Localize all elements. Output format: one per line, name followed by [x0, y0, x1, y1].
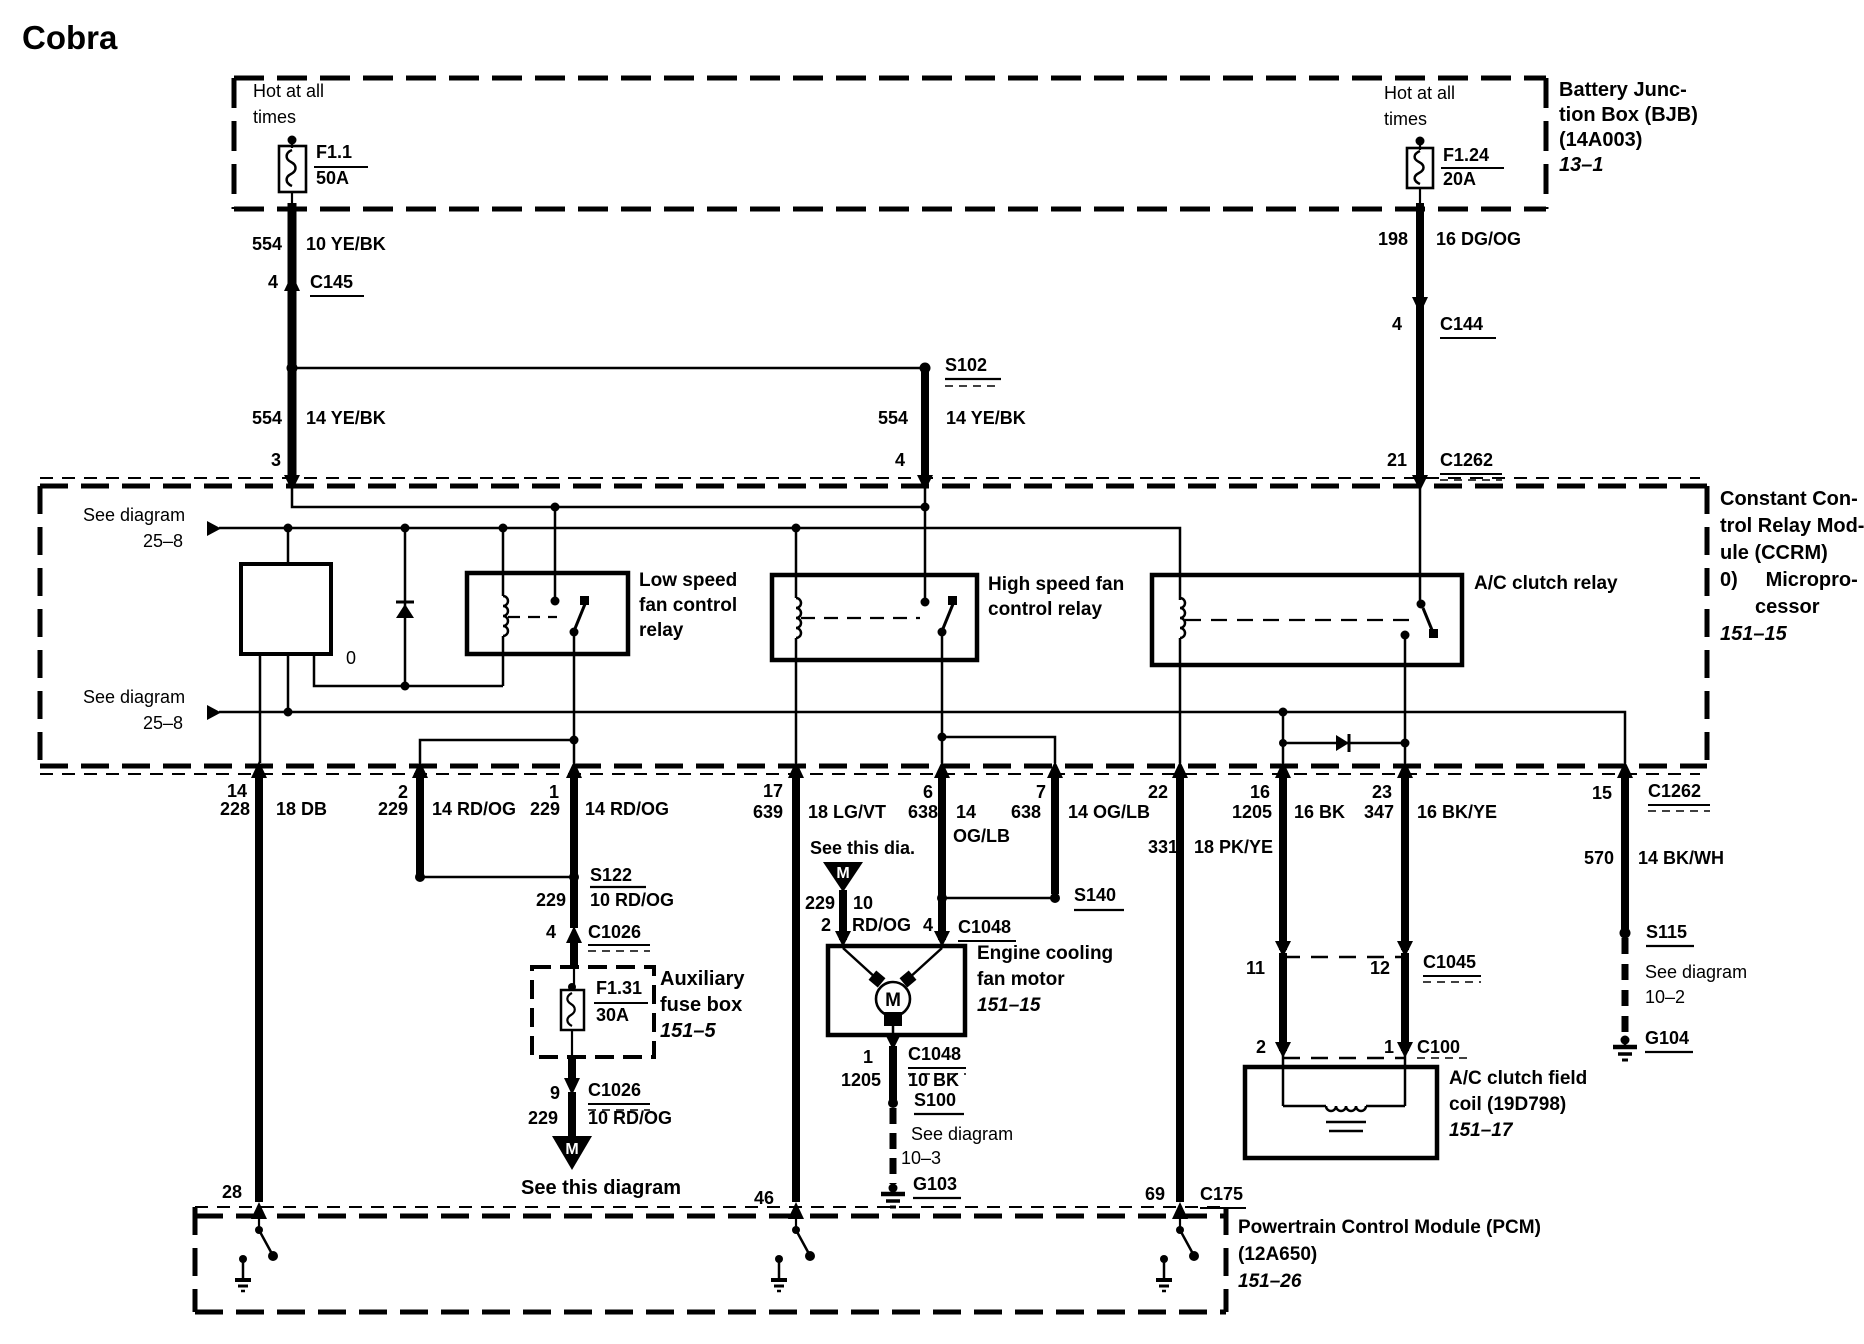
junction dot on 554 wire [287, 363, 298, 374]
wire 229 14 RD/OG pin 1 [570, 778, 578, 928]
connector C145 arrow [284, 274, 300, 291]
see this diagram label [521, 1178, 681, 1199]
title Cobra [22, 21, 117, 56]
splice S115 [1620, 928, 1631, 939]
wire 229 10 RD/OG to fan motor feed [568, 1092, 576, 1137]
ground inside PCM pin 28 [235, 1255, 251, 1291]
fuse F1.31 30A [561, 983, 648, 1056]
PCM pin 46 switch to ground [792, 1214, 815, 1261]
microprocessor bottom wires [260, 654, 503, 763]
splice S102 [920, 363, 931, 374]
CCRM pin 3 entry arrow [284, 475, 300, 491]
auxiliary fuse box labels [596, 979, 642, 998]
see diagram 10-2 label [1645, 963, 1747, 982]
pin 7 tap wire off high speed output [942, 737, 1055, 763]
diode between pin16 and pin23 wires [1283, 734, 1405, 752]
ground G103 [881, 1184, 961, 1208]
connector C144 arrow [1412, 297, 1428, 314]
connector C1026 pin 4 labels [546, 923, 556, 942]
A/C relay switch [1401, 487, 1439, 763]
microprocessor box (0) [241, 564, 331, 654]
see diagram 25-8 upper feed wire [219, 528, 1180, 600]
fuse F1.1 50A [279, 136, 368, 204]
pin 22 labels [1148, 783, 1168, 802]
CCRM pin 21 and C1262 labels [1387, 451, 1407, 470]
connector C100 dashed line and arrows [1275, 1042, 1469, 1058]
connector C1026 pin 9 arrow [564, 1078, 580, 1095]
wires between C1045 and C100 [1279, 953, 1287, 1051]
connector C1048 pin 1 labels [863, 1048, 873, 1067]
see this dia. label [810, 839, 915, 858]
dashed wire to ground G104 [1622, 938, 1629, 1036]
ground G104 label [1645, 1029, 1689, 1048]
CCRM name label [1720, 486, 1864, 648]
CCRM pin 21 entry arrow [1412, 475, 1428, 491]
connector C100 labels [1256, 1038, 1266, 1057]
pin 16 labels [1250, 783, 1270, 802]
microprocessor 0 label [346, 649, 356, 668]
pin 15 and C1262 labels [1592, 784, 1612, 803]
low speed relay armature link [508, 616, 557, 618]
flyback diode for low speed relay coil [396, 528, 414, 686]
junction dot diode/return wire [401, 682, 410, 691]
PCM dashed enclosure [195, 1207, 1226, 1312]
wire 554 10 YE/BK labels [252, 235, 282, 254]
ground inside PCM pin 69 [1156, 1255, 1172, 1291]
pin 1 labels [549, 783, 559, 802]
splice S100 label [914, 1091, 956, 1110]
see diagram 25-8 lower feed arrow [207, 705, 221, 720]
fuse F1.24 20A [1407, 137, 1504, 204]
ground G103 label [913, 1175, 957, 1194]
pin 2 labels [398, 783, 408, 802]
auxiliary fuse box dashed enclosure [532, 967, 654, 1057]
CCRM bottom connector exit arrows C1262 [251, 761, 1633, 778]
connector C1045 dashed line and arrows [1275, 941, 1481, 982]
pin 2 tap wire off low speed output [420, 740, 574, 763]
connector C1026 pin 9 labels [550, 1084, 560, 1103]
see diagram 25-8 upper label [83, 506, 185, 525]
PCM pin 28 switch to ground [255, 1214, 278, 1261]
wire 570 14 BK/WH pin 15 [1621, 778, 1629, 929]
junction dot pin16/lower feed [1279, 708, 1288, 717]
junction dot micro/lower feed [284, 708, 293, 717]
ground G104 [1613, 1036, 1693, 1061]
junction dot feed/S102 branch [921, 503, 930, 512]
A/C clutch relay box [1152, 575, 1462, 665]
wire 229 14 RD/OG pin 2 [416, 778, 424, 874]
wire 639 18 LG/VT pin17 to PCM pin46 [792, 778, 800, 1202]
splice S140 [937, 893, 1124, 910]
A/C relay armature link [1185, 619, 1412, 621]
wire 347 16 BK/YE pin 23 [1401, 778, 1409, 950]
high speed relay switch [921, 596, 958, 763]
low speed relay label [639, 568, 737, 643]
wire 1205 16 BK pin 16 [1279, 778, 1287, 950]
motor M circle [869, 971, 917, 1026]
PCM pin 46 entry arrow [788, 1202, 804, 1219]
CCRM pin 4 entry arrow [917, 475, 933, 491]
connector C1026 pin 4 arrow [566, 926, 582, 943]
connector C144 labels [1392, 315, 1402, 334]
see diagram 25-8 lower label [83, 688, 185, 707]
high speed relay coil [796, 528, 801, 763]
connector C1045 labels [1246, 959, 1265, 978]
wire 198 16 DG/OG labels [1378, 230, 1408, 249]
wire to splice S102 [292, 367, 925, 370]
svg-text:M: M [885, 990, 901, 1011]
svg-text:M: M [836, 865, 849, 882]
wire 229 10 RD/OG below S122 [570, 877, 578, 926]
pin 7 labels [1036, 783, 1046, 802]
wire 331 18 PK/YE pin22 to PCM pin69 [1176, 778, 1184, 1202]
splice S140 label [1074, 886, 1116, 905]
connector label underlines top area [310, 296, 1710, 1208]
A/C clutch field coil box [1245, 1067, 1437, 1158]
wire 638 14 OG/LB pin 7 [1051, 778, 1059, 894]
wire 198 16 DG/OG from F1.24 [1416, 203, 1424, 477]
wire 554 14 YE/BK labels S102 branch [878, 409, 908, 428]
wire 229 10 RD/OG into motor [839, 890, 847, 940]
low speed relay switch [551, 596, 590, 763]
CCRM enclosure dashed borders [40, 478, 1707, 774]
see diagram 25-8 upper feed arrow [207, 521, 221, 536]
pin 23 labels [1372, 783, 1392, 802]
BJB right fuse labels [1384, 80, 1455, 132]
pin 17 labels [763, 782, 783, 801]
splice S100 [888, 1098, 898, 1108]
splice S122 [415, 872, 646, 887]
wire below auxiliary fuse box [568, 1056, 576, 1080]
low speed fan control relay box [467, 573, 628, 654]
PCM pin 69 and C175 labels [1145, 1185, 1165, 1204]
Battery Junction Box (BJB) dashed enclosure [234, 78, 1546, 209]
wire 638 14 OG/LB pin 6 [938, 778, 946, 940]
splice S115 label [1646, 923, 1687, 942]
connector C1048 pin 2 arrow [835, 931, 851, 947]
ground inside PCM pin 46 [771, 1255, 787, 1291]
high speed fan control relay box [772, 575, 977, 660]
connector C1048 pin 4 arrow [934, 931, 950, 947]
M destination arrow (to motor diagram) [552, 1136, 592, 1170]
junction dots on upper feed wire [284, 524, 293, 533]
wire 554 14 YE/BK from S102 [921, 368, 929, 476]
see diagram 10-3 label [911, 1125, 1013, 1144]
wire 229 10 RD/OG motor feed labels [805, 894, 835, 913]
pin 6 labels [923, 783, 933, 802]
motor internal wiring [843, 948, 942, 1035]
A/C clutch relay label [1474, 574, 1618, 594]
M source arrow (see this dia.) [823, 862, 863, 892]
BJB name label [1559, 78, 1698, 178]
CCRM pin 3 number [271, 451, 281, 470]
BJB left fuse labels [253, 78, 324, 130]
pin 16 wire inside CCRM [1282, 712, 1285, 763]
PCM pin 28 number [222, 1183, 242, 1202]
low speed relay coil [503, 528, 508, 686]
PCM pin 69 switch to ground [1176, 1214, 1199, 1261]
connector C145 labels [268, 273, 278, 292]
pin 14 labels [227, 782, 247, 801]
wire 554 10 YE/BK from F1.1 [288, 203, 297, 476]
wire 554 14 YE/BK labels left [252, 409, 282, 428]
junction dot feed/low speed switch [551, 503, 560, 512]
PCM pin 69 entry arrow [1172, 1202, 1188, 1219]
battery feed wire inside CCRM pin3 to relays [292, 487, 928, 602]
engine cooling fan motor label [977, 941, 1113, 1019]
connector C1048 pin 1 arrow below motor [892, 1035, 895, 1042]
CCRM pin 4 number [895, 451, 905, 470]
A/C clutch relay coil [1180, 598, 1185, 763]
field coil internal wiring [1283, 1054, 1405, 1131]
svg-text:M: M [565, 1141, 578, 1158]
dashed wire to ground G103 [890, 1108, 897, 1184]
high speed relay armature link [801, 617, 920, 619]
wire 1205 10 BK below motor [889, 1046, 897, 1100]
engine cooling fan motor box [828, 946, 965, 1035]
high speed relay label [988, 572, 1124, 622]
wire 228 18 DB pin14 to PCM pin28 [255, 778, 263, 1202]
A/C clutch field coil label [1449, 1066, 1587, 1144]
PCM pin 46 number [754, 1189, 774, 1208]
PCM name label [1238, 1214, 1541, 1295]
splice S102 label [945, 356, 987, 375]
splice S122 labels [590, 866, 632, 885]
see diagram 25-8 lower feed wire [219, 712, 1625, 763]
PCM pin 28 entry arrow [251, 1202, 267, 1219]
connector C1048 pin 4 labels [923, 916, 933, 935]
wire into auxiliary fuse box [570, 943, 578, 966]
